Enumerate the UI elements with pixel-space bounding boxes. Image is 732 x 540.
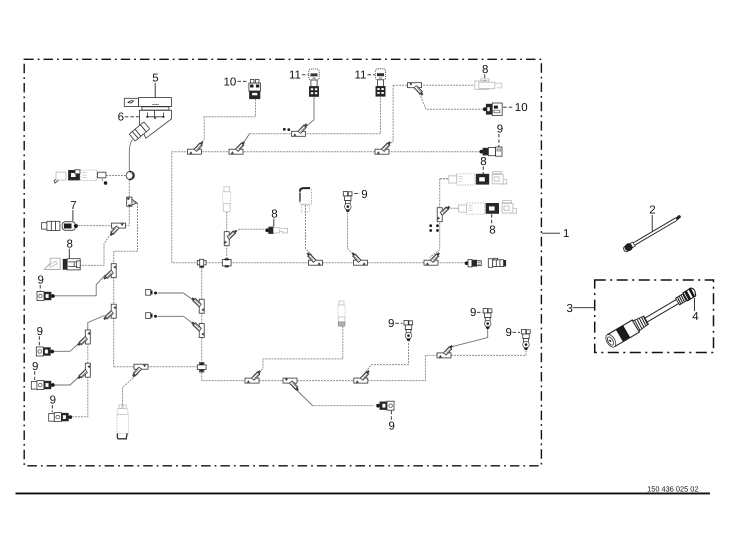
svg-text:150 436 025 02: 150 436 025 02: [647, 485, 698, 494]
svg-text:11: 11: [289, 70, 301, 82]
svg-text:9: 9: [497, 123, 503, 135]
svg-text:8: 8: [482, 64, 488, 76]
svg-text:9: 9: [38, 275, 44, 287]
svg-text:8: 8: [67, 238, 73, 250]
svg-text:9: 9: [506, 327, 512, 339]
svg-text:8: 8: [271, 208, 277, 220]
svg-text:3: 3: [567, 303, 573, 315]
svg-text:9: 9: [50, 395, 56, 407]
svg-text:8: 8: [480, 156, 486, 168]
svg-text:9: 9: [361, 189, 367, 201]
svg-text:5: 5: [152, 73, 158, 85]
svg-text:11: 11: [355, 70, 367, 82]
svg-text:9: 9: [388, 318, 394, 330]
svg-text:8: 8: [489, 225, 495, 237]
svg-text:2: 2: [649, 205, 655, 217]
svg-text:9: 9: [37, 326, 43, 338]
svg-text:9: 9: [470, 307, 476, 319]
svg-text:4: 4: [692, 311, 699, 323]
svg-text:9: 9: [32, 361, 38, 373]
svg-text:9: 9: [389, 420, 395, 432]
svg-text:10: 10: [515, 102, 528, 114]
svg-text:7: 7: [70, 200, 76, 212]
svg-text:1: 1: [563, 228, 569, 240]
svg-text:6: 6: [118, 111, 124, 123]
svg-text:10: 10: [224, 76, 237, 88]
